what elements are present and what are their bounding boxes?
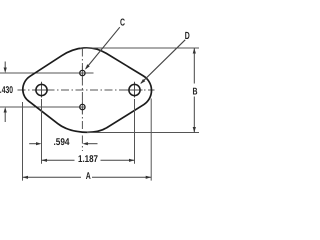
dimension .430 [0,62,13,123]
extension line hole left down [41,99,43,164]
svg-text:C: C [120,18,125,29]
vertical centerline [81,49,83,152]
label C leader [85,18,125,70]
svg-text:.594: .594 [54,137,70,148]
pin top [80,70,85,75]
mounting hole right [129,84,140,95]
extension line A right [150,99,152,181]
svg-text:B: B [193,87,198,98]
left hole crosshair [34,82,50,98]
dimension A [23,171,152,182]
extension line B bottom [87,132,199,134]
svg-text:D: D [185,31,190,42]
pin bottom [80,104,85,109]
mounting hole left [36,84,47,95]
dimension B [193,48,198,133]
wire: top pin row line [0,72,94,74]
label D leader [140,31,190,84]
svg-text:A: A [86,171,91,182]
wire: bottom pin row line [0,106,85,108]
dimension .594 [29,137,97,148]
svg-text:.430: .430 [0,85,13,96]
dimension 1.187 [42,154,135,165]
pin crosshair verticals [81,66,83,114]
right hole crosshair [127,82,143,98]
extension line hole right down [134,99,136,164]
svg-text:1.187: 1.187 [78,154,98,165]
horizontal centerline [18,89,155,91]
extension line B top [80,47,199,49]
flange outline [23,48,152,132]
extension line A left [22,102,24,181]
